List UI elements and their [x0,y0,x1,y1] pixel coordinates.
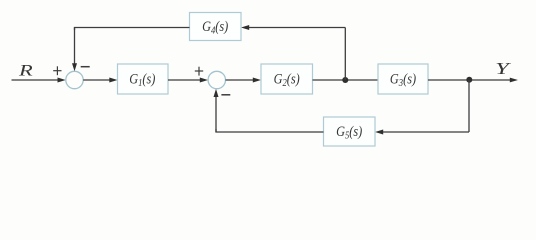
wire: node N1 up to top feedback line [344,28,346,81]
node N1 (takeoff between G2 and G3) [342,77,348,83]
block G5 [324,117,376,146]
sign + at S1 input [53,66,61,75]
block G1 [118,64,169,94]
sign - at S1 top input [81,66,90,68]
wire: G2 to node N1 to G3 [313,79,379,81]
svg-text:G2(s): G2(s) [274,70,301,89]
wire: input R to summing junction S1 [12,79,59,81]
arrowhead into G2 [253,78,261,83]
wire: bottom feedback into G5 [382,131,469,133]
block G3 [378,64,428,94]
svg-text:R: R [18,62,33,79]
arrowhead into S2 [200,78,208,83]
arrowhead into G5 right side [375,130,383,135]
summing junction S1 [66,71,83,88]
arrowhead into S1 [58,78,66,83]
arrowhead into S1 top [72,63,77,71]
wire: feedback from G4 down into S1 [74,28,76,65]
block G4 [190,13,242,41]
block G2 [261,64,313,94]
wire: G1 to summing junction S2 [168,79,201,81]
arrowhead into S2 bottom [214,89,219,97]
arrowhead output Y [510,78,518,83]
arrowhead into G4 right side [241,25,249,30]
arrowhead into G1 [109,78,117,83]
sign + at S2 input [195,67,203,76]
wire: S2 to G2 [226,79,255,81]
wire: feedback from G5 up into S2 [215,96,217,132]
wire: G4 output left then down to S1 [75,28,190,31]
sign - at S2 bottom input [221,94,230,96]
svg-text:G5(s): G5(s) [336,123,363,142]
wire: S1 to G1 [83,79,110,81]
svg-text:G3(s): G3(s) [390,70,417,89]
wire: node N2 down to bottom feedback line [468,80,470,132]
wire: G5 output left then up to S2 [216,129,324,132]
node N2 (takeoff at output) [466,77,472,83]
summing junction S2 [208,71,225,88]
svg-text:G4(s): G4(s) [202,18,229,37]
wire: top feedback into G4 [248,27,345,29]
svg-text:G1(s): G1(s) [129,70,156,89]
wire: G3 to node N2 to output Y [428,79,511,81]
